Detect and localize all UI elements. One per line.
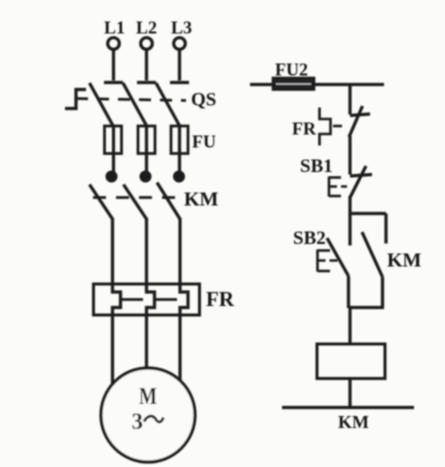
control bottom rail wire — [282, 406, 414, 409]
svg-text:KM: KM — [184, 189, 219, 211]
switch QS pole 1 — [90, 83, 124, 128]
wire coil to bottom rail — [348, 379, 351, 408]
label KM aux — [387, 250, 422, 272]
label SB1 — [300, 156, 333, 177]
FR NC contact (control) — [349, 106, 370, 137]
terminal circle L1 — [108, 38, 120, 50]
wire SB1 to junction — [348, 196, 351, 215]
svg-text:FR: FR — [206, 287, 235, 311]
svg-text:L1: L1 — [104, 18, 125, 38]
terminal circle L3 — [174, 38, 186, 50]
node L2 terminal label — [136, 18, 157, 38]
fuse FU2 — [273, 78, 314, 90]
node L1 terminal label — [104, 18, 125, 38]
wire L2 to QS — [145, 50, 148, 81]
motor label M 3~ — [132, 384, 158, 434]
wire FR to motor pole 1 — [111, 315, 114, 388]
FR heater element pole 3 — [180, 284, 188, 315]
label FU — [192, 132, 216, 152]
FR thermal actuator — [320, 108, 347, 146]
motor M circle — [101, 368, 195, 462]
svg-text:FR: FR — [292, 119, 317, 139]
contactor KM main contact pole 1 — [90, 172, 116, 219]
label KM coil — [338, 412, 369, 432]
switch QS pole 2 — [123, 83, 156, 128]
contactor coil KM — [317, 344, 385, 379]
wire junction to KM aux — [384, 214, 387, 244]
QS linkage dashed line — [76, 99, 186, 101]
wire KM pole3 to FR — [178, 218, 181, 284]
fuse FU pole 1 — [105, 126, 122, 173]
wire top rail to FR contact — [348, 85, 351, 115]
control top rail wire — [250, 83, 384, 86]
svg-text:KM: KM — [338, 412, 369, 432]
contactor KM main contact pole 3 — [157, 172, 183, 219]
fuse FU pole 2 — [138, 126, 155, 173]
wire L3 to QS — [178, 50, 181, 81]
QS operating handle — [65, 90, 86, 109]
wire L1 to QS — [112, 50, 115, 81]
svg-text:FU2: FU2 — [275, 60, 308, 80]
label FR control — [292, 119, 317, 139]
wire KM pole1 to FR — [111, 218, 114, 284]
switch QS pole 3 — [156, 83, 189, 128]
svg-text:L2: L2 — [136, 18, 157, 38]
label SB2 — [293, 228, 326, 249]
wire FR to motor pole 3 — [178, 315, 181, 384]
svg-text:QS: QS — [191, 90, 216, 111]
junction bottom of parallel branch — [349, 306, 385, 309]
KM linkage dashed line — [93, 196, 178, 199]
junction top of parallel branch — [350, 212, 386, 215]
pushbutton SB1 NC — [350, 166, 372, 198]
wire FR contact to SB1 — [348, 136, 351, 175]
label FR power — [206, 287, 235, 311]
svg-text:KM: KM — [387, 250, 422, 272]
wire junction to SB2 — [348, 214, 351, 246]
wire KM pole2 to FR — [145, 218, 148, 284]
svg-text:L3: L3 — [171, 18, 192, 38]
pushbutton SB2 NO — [327, 238, 349, 308]
label QS — [191, 90, 216, 111]
svg-text:SB1: SB1 — [300, 156, 333, 177]
FR heater element pole 1 — [113, 284, 121, 315]
terminal circle L2 — [141, 38, 153, 50]
FR heater element pole 2 — [147, 284, 155, 315]
label KM main — [184, 189, 219, 211]
contactor KM auxiliary contact — [362, 232, 383, 308]
FR linkage dashed segments — [121, 298, 177, 301]
label FU2 — [275, 60, 308, 80]
svg-text:M: M — [139, 384, 157, 410]
svg-text:3: 3 — [132, 409, 144, 434]
wire junction to coil — [348, 308, 351, 345]
contactor KM main contact pole 2 — [124, 172, 150, 219]
node L3 terminal label — [171, 18, 192, 38]
thermal relay FR box — [94, 284, 200, 315]
svg-text:SB2: SB2 — [293, 228, 326, 249]
SB2 actuator E — [318, 250, 341, 272]
fuse FU pole 3 — [171, 126, 188, 173]
wire FR to motor pole 2 — [145, 315, 148, 372]
motor tilde symbol — [144, 416, 164, 422]
SB1 actuator E — [329, 177, 347, 197]
svg-text:FU: FU — [192, 132, 216, 152]
